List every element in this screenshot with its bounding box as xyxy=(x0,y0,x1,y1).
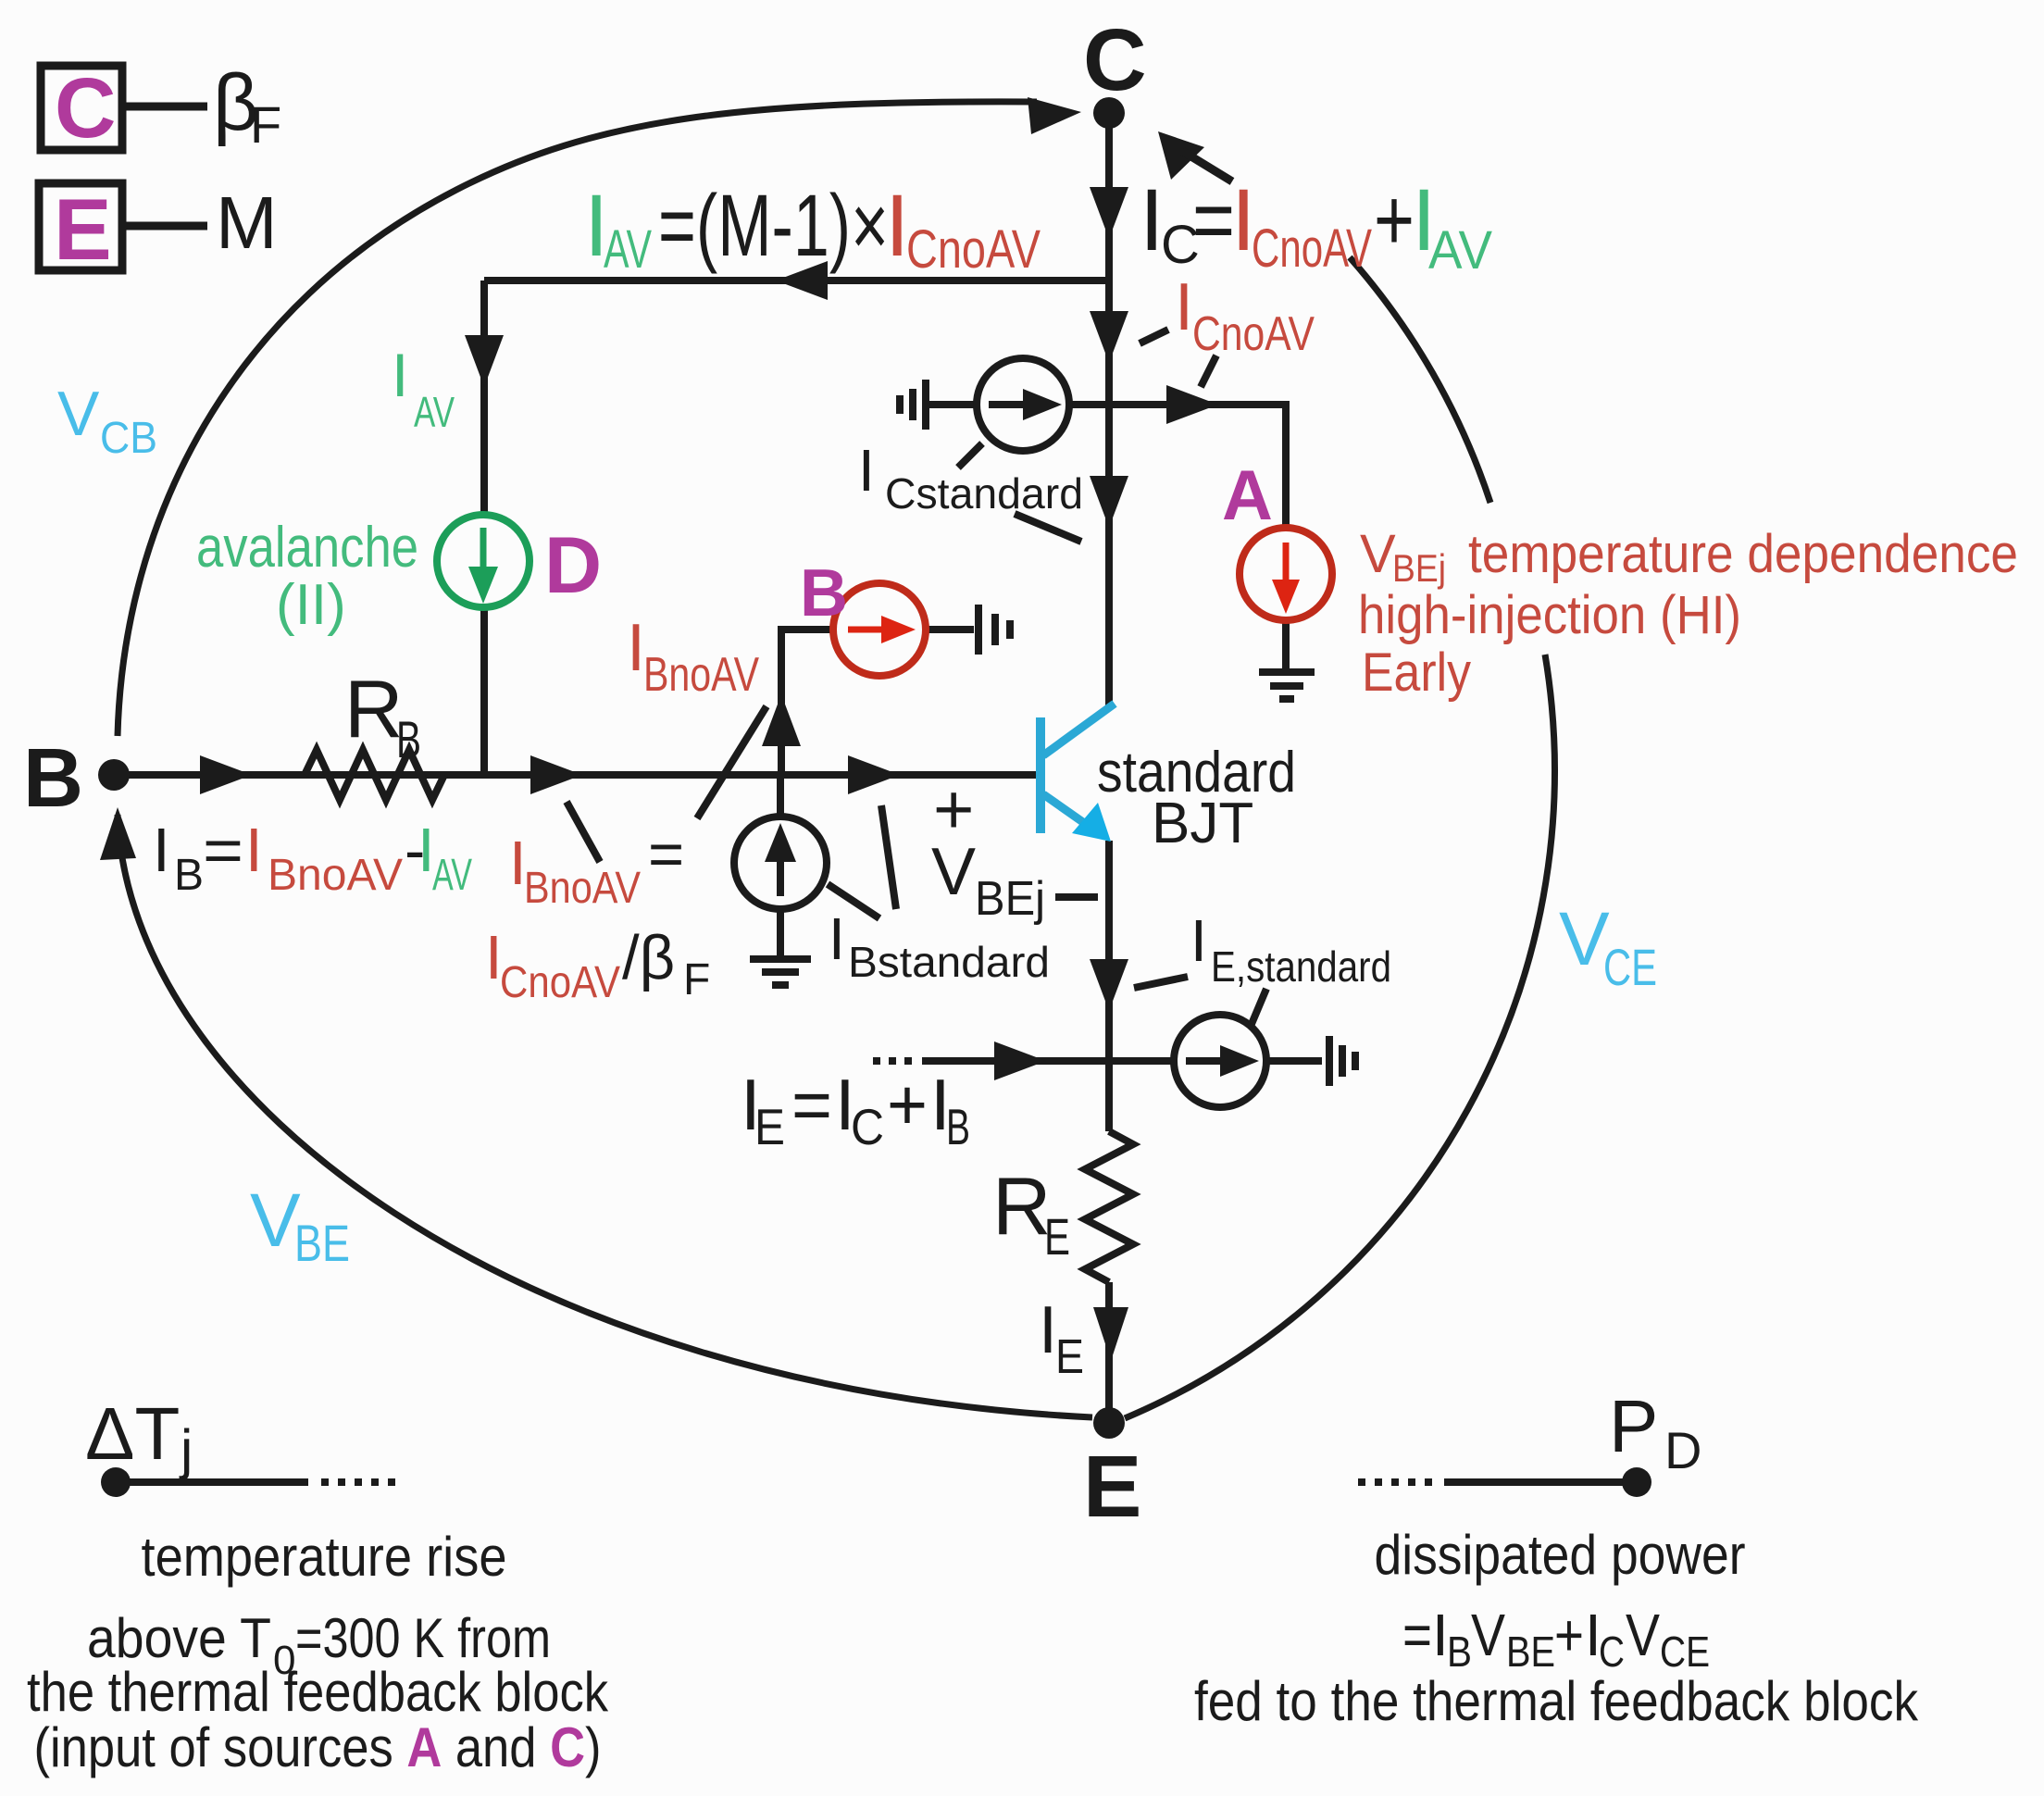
svg-text:above T: above T xyxy=(87,1607,271,1669)
svg-text:CnoAV: CnoAV xyxy=(500,958,620,1007)
svg-text:AV: AV xyxy=(604,219,652,280)
svg-text:CE: CE xyxy=(1660,1628,1710,1676)
svg-text:=: = xyxy=(791,1064,832,1145)
svg-text:AV: AV xyxy=(1428,220,1492,281)
svg-text:Cstandard: Cstandard xyxy=(885,469,1083,518)
svg-text:E: E xyxy=(54,181,112,278)
svg-text:B: B xyxy=(800,556,848,630)
svg-text:I: I xyxy=(627,611,645,685)
svg-text:V: V xyxy=(1471,1602,1505,1668)
svg-text:dissipated power: dissipated power xyxy=(1375,1524,1746,1586)
svg-text:=300 K from: =300 K from xyxy=(295,1607,551,1669)
svg-text:B: B xyxy=(396,710,421,768)
svg-text:B: B xyxy=(23,732,83,825)
svg-text:R: R xyxy=(992,1160,1052,1252)
svg-text:V: V xyxy=(57,379,100,449)
svg-text:+: + xyxy=(1554,1602,1584,1668)
svg-text:C: C xyxy=(55,61,116,156)
svg-text:BE: BE xyxy=(294,1214,350,1272)
svg-text:+: + xyxy=(887,1064,928,1145)
svg-text:CE: CE xyxy=(1603,938,1657,996)
svg-text:BnoAV: BnoAV xyxy=(643,648,759,702)
svg-text:B: B xyxy=(1447,1628,1472,1676)
svg-text:R: R xyxy=(344,663,404,755)
svg-text:AV: AV xyxy=(414,388,455,436)
svg-text:B: B xyxy=(174,851,204,900)
svg-text:temperature dependence: temperature dependence xyxy=(1468,524,2018,584)
svg-text:D: D xyxy=(1664,1421,1701,1479)
svg-text:P: P xyxy=(1609,1385,1658,1467)
svg-text:CnoAV: CnoAV xyxy=(906,219,1041,280)
svg-text:F: F xyxy=(683,955,710,1004)
svg-text:j: j xyxy=(179,1418,193,1480)
svg-text:AV: AV xyxy=(432,851,472,900)
svg-text:Bstandard: Bstandard xyxy=(848,938,1050,986)
svg-text:CnoAV: CnoAV xyxy=(1252,218,1372,279)
svg-text:E: E xyxy=(1083,1438,1141,1536)
svg-text:V: V xyxy=(250,1179,301,1263)
svg-text:I: I xyxy=(1039,1293,1057,1367)
svg-text:BEj: BEj xyxy=(1392,546,1446,590)
svg-text:fed to the thermal feedback bl: fed to the thermal feedback block xyxy=(1194,1670,1919,1732)
svg-text:temperature rise: temperature rise xyxy=(142,1526,507,1588)
svg-text:E: E xyxy=(1055,1330,1084,1384)
svg-text:I: I xyxy=(245,816,263,885)
svg-text:(input of sources A and C): (input of sources A and C) xyxy=(34,1716,602,1778)
svg-text:=: = xyxy=(648,819,684,889)
svg-text:V: V xyxy=(1626,1602,1660,1668)
svg-text:CB: CB xyxy=(100,414,157,463)
svg-text:V: V xyxy=(1559,897,1610,981)
svg-text:I: I xyxy=(858,437,875,504)
svg-text:I: I xyxy=(153,816,170,885)
svg-text:high-injection (HI): high-injection (HI) xyxy=(1358,585,1741,645)
svg-text:E: E xyxy=(754,1098,785,1155)
svg-text:the thermal feedback block: the thermal feedback block xyxy=(27,1661,609,1723)
svg-text:=: = xyxy=(1192,171,1235,269)
svg-text:=: = xyxy=(203,816,243,885)
svg-text:(II): (II) xyxy=(276,573,346,637)
svg-text:BnoAV: BnoAV xyxy=(268,851,403,900)
svg-text:M: M xyxy=(216,181,278,264)
svg-text:I: I xyxy=(829,905,845,972)
svg-text:E,standard: E,standard xyxy=(1211,942,1391,991)
svg-text:I: I xyxy=(1175,270,1193,344)
svg-text:BE: BE xyxy=(1506,1628,1555,1676)
svg-text:BJT: BJT xyxy=(1152,792,1253,855)
svg-text:I: I xyxy=(1190,907,1207,974)
svg-text:D: D xyxy=(544,521,602,610)
svg-text:E: E xyxy=(1044,1207,1070,1266)
svg-text:ΔT: ΔT xyxy=(85,1392,180,1475)
svg-text:V: V xyxy=(1360,524,1396,584)
svg-text:avalanche: avalanche xyxy=(196,516,418,580)
svg-text:C: C xyxy=(1599,1628,1625,1676)
svg-text:=: = xyxy=(1402,1602,1432,1668)
svg-text:CnoAV: CnoAV xyxy=(1192,307,1315,361)
svg-text:V: V xyxy=(931,835,976,909)
svg-text:BEj: BEj xyxy=(975,872,1045,926)
svg-text:F: F xyxy=(250,95,281,154)
svg-text:I: I xyxy=(392,341,408,409)
svg-text:Early: Early xyxy=(1362,642,1471,703)
svg-text:B: B xyxy=(946,1098,970,1155)
svg-text:/β: /β xyxy=(622,923,675,992)
svg-text:C: C xyxy=(1083,11,1147,109)
svg-text:C: C xyxy=(851,1098,884,1155)
svg-text:=(M-1)×: =(M-1)× xyxy=(658,177,889,275)
svg-text:BnoAV: BnoAV xyxy=(524,864,641,913)
svg-text:+: + xyxy=(1374,171,1415,269)
svg-text:A: A xyxy=(1222,456,1273,535)
